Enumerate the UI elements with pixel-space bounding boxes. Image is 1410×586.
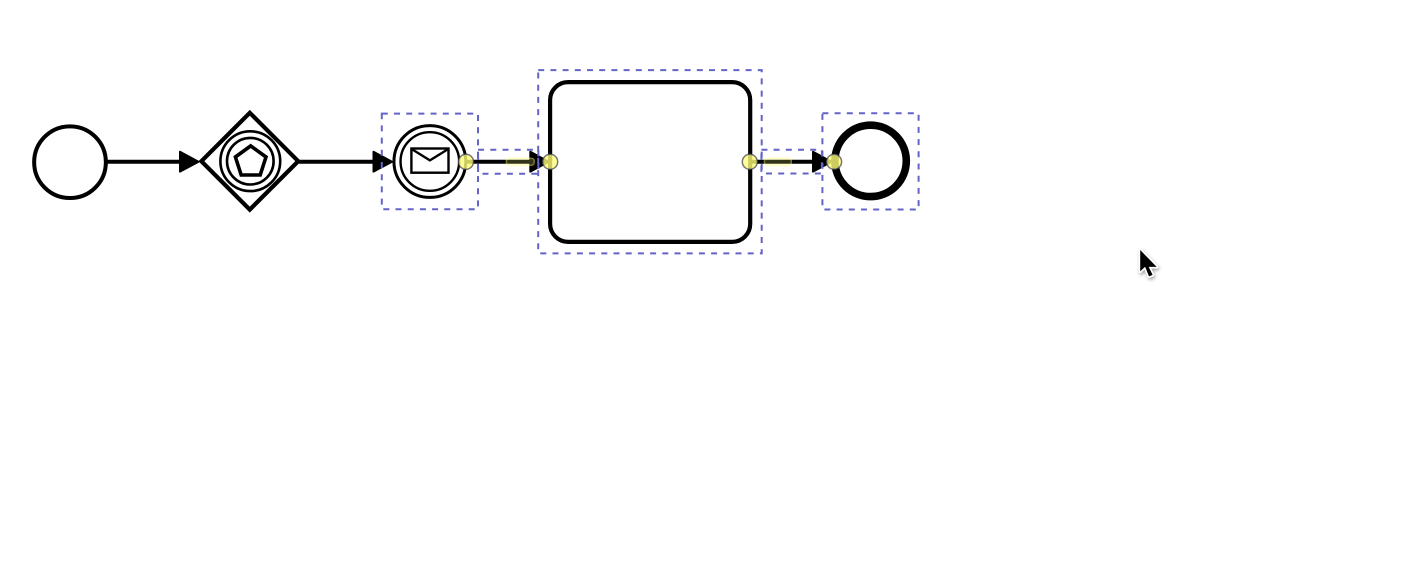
segment dragger outline on flow 3 (506, 158, 534, 165)
bendpoint dot at task left (543, 154, 558, 169)
bendpoint dot at message event right (459, 154, 474, 169)
selection outline of end event (822, 113, 918, 209)
selection outline of flow 3 connection (478, 150, 538, 174)
end event thick circle (835, 125, 906, 196)
segment dragger fill on flow 4 (764, 158, 792, 166)
bendpoint dot at task right (742, 154, 757, 169)
event-based gateway diamond (201, 113, 298, 210)
arrowhead of sequence flow 3 (530, 152, 549, 172)
wire: sequence flow 2 (gateway to message event) (299, 160, 374, 164)
mouse cursor (1140, 250, 1157, 276)
wire: sequence flow 1 (start to gateway) (106, 160, 181, 164)
arrowhead of sequence flow 1 (180, 152, 199, 172)
selection outline of flow 4 connection (761, 150, 822, 174)
gateway inner circle (227, 138, 274, 185)
mouse cursor black arrow (1140, 250, 1157, 276)
wire: sequence flow 3 (message event to task) (466, 160, 532, 164)
gateway outer circle (220, 131, 280, 191)
segment dragger outline on flow 4 (764, 158, 791, 165)
selection outline of task (538, 70, 762, 253)
message event inner circle (401, 132, 460, 191)
wire: sequence flow 4 (task to end event) (750, 160, 814, 164)
message envelope flap (411, 149, 448, 161)
message envelope icon (411, 149, 448, 173)
selection outline of message event (382, 114, 478, 210)
bendpoint dot at end event left (827, 154, 842, 169)
arrowhead of sequence flow 2 (374, 152, 393, 172)
gateway pentagon icon (235, 146, 266, 175)
arrowhead of sequence flow 4 (813, 152, 832, 172)
segment dragger fill on flow 3 (506, 158, 535, 166)
start event circle (34, 126, 106, 198)
message intermediate catch event outer circle (394, 126, 466, 198)
task rounded rectangle (550, 82, 750, 242)
